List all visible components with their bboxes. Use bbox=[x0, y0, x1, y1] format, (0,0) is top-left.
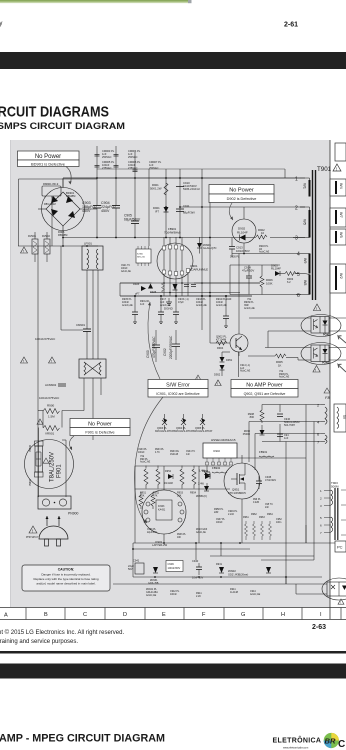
svg-text:and(or) model name described i: and(or) model name described in main lab… bbox=[36, 582, 96, 586]
svg-text:KRC102S-RTK/P: KRC102S-RTK/P bbox=[193, 430, 213, 433]
bus wire main bbox=[120, 295, 252, 297]
right margin winding box 5V bbox=[334, 404, 346, 432]
warning triangle 2 mid bbox=[49, 357, 56, 363]
svg-text:SEC-S5: SEC-S5 bbox=[137, 257, 146, 259]
svg-text:6.2: 6.2 bbox=[287, 280, 291, 284]
resistor R908 bbox=[248, 410, 264, 423]
svg-text:100nF/50V: 100nF/50V bbox=[236, 249, 250, 253]
svg-text:RL104F: RL104F bbox=[237, 231, 248, 235]
filter ACM902 bbox=[39, 359, 106, 400]
caution box bbox=[22, 565, 110, 591]
capacitor C919 bbox=[191, 285, 196, 287]
svg-text:R964: R964 bbox=[267, 513, 273, 516]
diode D925 bbox=[148, 284, 157, 295]
transformer T901 label bbox=[317, 164, 341, 173]
svg-text:IF7: IF7 bbox=[155, 209, 159, 213]
svg-text:PC902: PC902 bbox=[322, 362, 330, 365]
svg-text:100nF/275VAC: 100nF/275VAC bbox=[35, 337, 56, 341]
callout box No Power F901 bbox=[69, 419, 130, 451]
schematic right border bbox=[329, 140, 331, 619]
svg-text:D952: D952 bbox=[165, 470, 172, 473]
svg-text:PC: PC bbox=[337, 545, 343, 550]
diode D901 bbox=[153, 206, 169, 213]
svg-text:AMP - MPEG CIRCUIT DIAGRAM: AMP - MPEG CIRCUIT DIAGRAM bbox=[0, 733, 165, 745]
rails below IC901 bbox=[120, 283, 260, 293]
capacitor C947 bbox=[277, 434, 289, 440]
svg-text:47μF/50V: 47μF/50V bbox=[242, 269, 254, 273]
zener ZD931 bbox=[148, 567, 159, 585]
capacitor C910 bbox=[176, 181, 200, 191]
svg-text:No Power: No Power bbox=[88, 422, 112, 428]
bottom primary rails bbox=[37, 246, 39, 497]
svg-text:KRC102S-RTK/P: KRC102S-RTK/P bbox=[174, 430, 194, 433]
svg-text:!: ! bbox=[217, 382, 218, 386]
svg-text:W2: W2 bbox=[339, 273, 343, 279]
warning triangle above opto1 bbox=[313, 304, 320, 311]
schematic gray background bbox=[10, 140, 330, 607]
PC box bbox=[335, 541, 346, 552]
top label cluster row bbox=[102, 149, 162, 170]
warning triangle mid-left bbox=[21, 357, 28, 363]
svg-text:450V: 450V bbox=[101, 209, 110, 213]
svg-text:D951: D951 bbox=[226, 358, 233, 362]
IC900 side labels bbox=[121, 265, 131, 273]
wires secondary aux bbox=[230, 254, 301, 295]
svg-text:2.2nF: 2.2nF bbox=[228, 513, 235, 516]
svg-text:1: 1 bbox=[295, 177, 298, 183]
svg-text:D905 PL: D905 PL bbox=[230, 256, 240, 259]
svg-text:1N4148: 1N4148 bbox=[164, 482, 173, 485]
svg-text:A: A bbox=[4, 613, 8, 619]
svg-text:47μF: 47μF bbox=[178, 301, 184, 304]
svg-text:250VAC: 250VAC bbox=[128, 155, 138, 159]
wires top primary rails bbox=[19, 178, 98, 180]
secondary winding pins 6/7 bbox=[317, 432, 327, 445]
svg-text:6TF13N80K5: 6TF13N80K5 bbox=[228, 491, 246, 495]
resistor R900 bbox=[43, 404, 60, 419]
diode D954 bbox=[199, 470, 210, 478]
svg-text:GDZ-J43B(26we): GDZ-J43B(26we) bbox=[228, 572, 248, 576]
capacitor C918 bbox=[184, 285, 189, 287]
svg-text:C939: C939 bbox=[168, 562, 175, 566]
svg-text:!: ! bbox=[39, 421, 40, 425]
zener ZD932 bbox=[228, 567, 271, 576]
svg-text:IC901, IC902 are Defective: IC901, IC902 are Defective bbox=[156, 392, 199, 396]
grid labels bbox=[140, 492, 197, 498]
svg-text:AcloC,AE: AcloC,AE bbox=[250, 593, 261, 596]
svg-text:F901 is Defective: F901 is Defective bbox=[85, 431, 114, 435]
svg-text:W5: W5 bbox=[339, 232, 343, 238]
capacitor C913 bbox=[229, 238, 270, 259]
svg-text:GLALLQ7D: GLALLQ7D bbox=[203, 246, 217, 250]
svg-text:0.22R: 0.22R bbox=[253, 502, 259, 504]
bridge rectifier BD901 bbox=[18, 179, 98, 246]
zener ZD901 bbox=[197, 237, 217, 254]
svg-text:ht © 2015 LG Electronics Inc.: ht © 2015 LG Electronics Inc. All right … bbox=[0, 629, 124, 636]
transformer T903 bbox=[320, 481, 346, 540]
svg-text:5V: 5V bbox=[342, 415, 346, 420]
capacitor C902 bbox=[163, 330, 180, 360]
svg-text:1.4W: 1.4W bbox=[199, 470, 205, 473]
svg-text:CAUTION:: CAUTION: bbox=[58, 568, 75, 572]
svg-text:!: ! bbox=[315, 368, 316, 373]
svg-text:C: C bbox=[83, 612, 87, 618]
svg-text:AcloC,AE: AcloC,AE bbox=[216, 304, 227, 307]
left resistor RV902 bbox=[42, 232, 50, 262]
capacitor C911 bbox=[176, 204, 195, 215]
logo eletronicabr bbox=[273, 733, 346, 750]
resistor R906 bbox=[260, 265, 273, 295]
wire between filters bbox=[38, 169, 149, 428]
zener ZD906 bbox=[243, 430, 265, 436]
ferrite bead FB931 bbox=[259, 450, 274, 457]
svg-text:10: 10 bbox=[261, 231, 265, 235]
svg-text:W8: W8 bbox=[303, 280, 307, 285]
svg-text:22μF/50V: 22μF/50V bbox=[147, 532, 157, 534]
warning triangle near DGND bbox=[195, 375, 201, 381]
svg-text:RBV-806M: RBV-806M bbox=[44, 203, 56, 206]
svg-text:!: ! bbox=[23, 249, 24, 253]
svg-text:800: 800 bbox=[250, 415, 255, 419]
svg-text:AcloC,AE: AcloC,AE bbox=[240, 370, 251, 373]
svg-text:AcloC,AE: AcloC,AE bbox=[244, 307, 255, 310]
svg-text:P9900: P9900 bbox=[29, 444, 32, 452]
transistor Q904 bbox=[174, 414, 194, 433]
diode D926 bbox=[173, 284, 178, 290]
T901 pin 2 bbox=[295, 206, 305, 212]
zener ZD951 bbox=[196, 483, 209, 499]
svg-text:100nF: 100nF bbox=[138, 452, 145, 454]
svg-text:www.eletronicabr.com: www.eletronicabr.com bbox=[283, 746, 308, 750]
green progress bar bbox=[0, 0, 188, 3]
svg-text:AcloC,AE: AcloC,AE bbox=[196, 304, 207, 307]
svg-text:275VAC: 275VAC bbox=[128, 166, 138, 170]
svg-text:250VAC: 250VAC bbox=[149, 166, 159, 170]
warning triangle at R900 bbox=[37, 419, 43, 425]
svg-text:R96 PL: R96 PL bbox=[253, 499, 261, 501]
warning triangle below opto2 bbox=[313, 366, 320, 373]
T901 pin 3 bbox=[293, 236, 305, 242]
svg-text:RV901: RV901 bbox=[28, 234, 36, 238]
right margin box top bbox=[335, 143, 346, 161]
svg-text:C940: C940 bbox=[192, 559, 199, 563]
capacitor C939 bbox=[166, 561, 183, 572]
winding box W2 bbox=[330, 264, 346, 293]
svg-text:AcloC,AE: AcloC,AE bbox=[122, 304, 133, 307]
svg-text:T901: T901 bbox=[317, 166, 332, 173]
diode D902 circle bbox=[232, 207, 256, 254]
top cluster cap symbols bbox=[95, 155, 138, 172]
svg-text:100nF/50V: 100nF/50V bbox=[168, 566, 181, 570]
below bus labels bbox=[122, 298, 232, 307]
svg-text:P9901: P9901 bbox=[29, 478, 32, 486]
diode D951 bbox=[220, 352, 233, 362]
svg-text:10nF 50V: 10nF 50V bbox=[192, 576, 204, 580]
svg-text:ZD932: ZD932 bbox=[228, 569, 236, 573]
svg-text:100K: 100K bbox=[266, 281, 273, 285]
svg-text:No Power: No Power bbox=[229, 188, 254, 194]
svg-text:2200pF/250VAC: 2200pF/250VAC bbox=[169, 335, 173, 359]
capacitor C904 bbox=[101, 201, 120, 213]
svg-text:504-763H: 504-763H bbox=[284, 424, 295, 427]
secondary rails bbox=[237, 405, 321, 585]
svg-text:R904: R904 bbox=[217, 346, 224, 350]
svg-text:AcloC,AE: AcloC,AE bbox=[160, 304, 171, 307]
svg-text:training and service purposes.: training and service purposes. bbox=[0, 639, 78, 645]
warning triangle between callouts bbox=[215, 380, 221, 386]
ferrite bead FB932 bbox=[212, 466, 227, 473]
capacitor C945 bbox=[256, 475, 276, 489]
svg-text:4.7K: 4.7K bbox=[155, 452, 160, 454]
labels above bus right bbox=[214, 508, 282, 524]
svg-text:1L4148: 1L4148 bbox=[230, 591, 239, 594]
svg-text:34063A/15: 34063A/15 bbox=[221, 438, 236, 442]
svg-text:22R: 22R bbox=[214, 511, 219, 514]
capacitor C905 bbox=[124, 214, 141, 224]
svg-text:C941: C941 bbox=[133, 559, 140, 563]
wire verticals top bbox=[96, 146, 98, 206]
arrow to opto1 bbox=[338, 336, 346, 343]
fuse clip top bbox=[29, 441, 43, 452]
svg-text:VR901: VR901 bbox=[45, 432, 55, 436]
optocoupler PC901 bbox=[301, 315, 341, 337]
svg-text:T8AL/250V: T8AL/250V bbox=[50, 452, 56, 482]
svg-text:F901: F901 bbox=[57, 464, 63, 478]
secondary winding pins 2/4 bbox=[317, 403, 327, 425]
svg-text:47nF/3kV: 47nF/3kV bbox=[265, 478, 276, 482]
diode D952 grid bbox=[164, 470, 173, 485]
svg-text:ly: ly bbox=[0, 21, 2, 27]
svg-text:B: B bbox=[44, 612, 48, 618]
svg-text:IC900: IC900 bbox=[137, 254, 144, 256]
svg-text:ZD93 GDZ: ZD93 GDZ bbox=[196, 529, 208, 531]
winding box W6 bbox=[330, 229, 346, 245]
svg-text:RV902: RV902 bbox=[42, 234, 50, 238]
svg-text:AcloC,AE: AcloC,AE bbox=[146, 594, 157, 597]
T901 winding W5 bbox=[300, 207, 311, 238]
svg-text:C921 TC: C921 TC bbox=[121, 265, 130, 267]
svg-text:470pF/250VAC: 470pF/250VAC bbox=[152, 336, 156, 358]
svg-text:Q902, Q951 are Defective: Q902, Q951 are Defective bbox=[244, 392, 286, 396]
svg-text:KRC102S-RTK/P: KRC102S-RTK/P bbox=[155, 430, 175, 433]
svg-text:C937 PL: C937 PL bbox=[216, 519, 226, 521]
svg-text:1K: 1K bbox=[278, 363, 282, 367]
svg-text:!: ! bbox=[340, 601, 341, 605]
transistor Q903 bbox=[155, 414, 175, 433]
schematic left border bbox=[9, 140, 11, 607]
resistor R902 bbox=[256, 228, 267, 239]
capacitor CM901 bbox=[35, 323, 91, 341]
small resistor row above bus bbox=[245, 521, 272, 540]
svg-text:CM901: CM901 bbox=[76, 323, 85, 327]
svg-text:100nF/275VAC: 100nF/275VAC bbox=[39, 396, 60, 400]
labels under C913 area bbox=[244, 298, 255, 310]
svg-text:D: D bbox=[123, 612, 127, 618]
svg-text:100n: 100n bbox=[276, 521, 282, 524]
svg-text:CIRCUIT DIAGRAMS: CIRCUIT DIAGRAMS bbox=[0, 104, 109, 121]
svg-text:1nF: 1nF bbox=[140, 303, 145, 306]
svg-text:PC901: PC901 bbox=[323, 334, 331, 337]
svg-text:2-63: 2-63 bbox=[312, 624, 326, 631]
svg-text:D952: D952 bbox=[214, 373, 221, 377]
capacitor C903 bbox=[82, 201, 101, 213]
svg-text:Danger if fuse is incorrectly: Danger if fuse is incorrectly replaced. bbox=[41, 573, 91, 577]
svg-text:D933 RL: D933 RL bbox=[170, 451, 180, 453]
T901 pin 5 bbox=[296, 272, 305, 278]
svg-text:100nF: 100nF bbox=[170, 593, 177, 596]
svg-text:IC902: IC902 bbox=[213, 449, 220, 453]
svg-text:C934 TC: C934 TC bbox=[186, 451, 195, 453]
svg-text:W7: W7 bbox=[339, 212, 343, 218]
diode D924 bbox=[133, 282, 146, 296]
svg-text:ACM902: ACM902 bbox=[45, 383, 57, 387]
svg-text:RBU8M: RBU8M bbox=[66, 194, 76, 198]
bottom tiny label clusters bbox=[146, 588, 261, 598]
svg-text:AcloC,AE: AcloC,AE bbox=[140, 461, 151, 464]
svg-text:7Ω(HW/BHd): 7Ω(HW/BHd) bbox=[164, 230, 180, 234]
svg-text:RM901 8D-9: RM901 8D-9 bbox=[43, 182, 59, 186]
svg-text:C900: C900 bbox=[146, 350, 150, 358]
wires to opto1 bbox=[249, 318, 346, 348]
svg-text:AcloC,AE: AcloC,AE bbox=[259, 251, 270, 254]
capacitor C914 bbox=[242, 265, 254, 278]
callout box No AMP Power bbox=[231, 380, 298, 398]
svg-text:DGND: DGND bbox=[164, 307, 174, 311]
connector PN900 bbox=[38, 496, 78, 516]
svg-text:P9000: P9000 bbox=[243, 433, 251, 436]
svg-text:W1: W1 bbox=[303, 183, 308, 190]
svg-text:FB931: FB931 bbox=[259, 450, 268, 454]
resistor R903 bbox=[285, 272, 296, 285]
winding box W4 bbox=[330, 179, 346, 196]
diode D952a bbox=[214, 352, 239, 377]
svg-text:SMPS CIRCUIT DIAGRAM: SMPS CIRCUIT DIAGRAM bbox=[0, 121, 125, 132]
winding box W7 bbox=[330, 208, 346, 227]
IC901 circle bbox=[157, 237, 208, 296]
IC902 DIP box small bbox=[136, 246, 151, 266]
svg-text:68μF/3kV: 68μF/3kV bbox=[183, 211, 195, 215]
bottom bus rails bbox=[113, 489, 335, 594]
svg-text:R900: R900 bbox=[47, 404, 55, 408]
svg-text:pF7: pF7 bbox=[135, 292, 140, 296]
warning triangle at plug bbox=[26, 526, 39, 539]
svg-text:ELETRÔNICA: ELETRÔNICA bbox=[273, 736, 322, 745]
svg-text:3: 3 bbox=[295, 236, 298, 242]
T901 winding W1 bbox=[300, 178, 311, 197]
capacitor C940 bbox=[192, 559, 204, 580]
wire drops below bus bbox=[135, 254, 239, 344]
svg-text:H: H bbox=[281, 612, 285, 618]
resistor R901 bbox=[150, 183, 168, 195]
svg-text:1N4148: 1N4148 bbox=[170, 454, 179, 456]
warning triangle below opto3 bbox=[338, 599, 344, 605]
IC902 box bbox=[140, 438, 237, 465]
svg-text:FB932: FB932 bbox=[212, 466, 221, 470]
T901 winding W8 bbox=[305, 274, 311, 295]
svg-text:HSSE1: HSSE1 bbox=[211, 438, 221, 442]
svg-text:ZD951(K): ZD951(K) bbox=[196, 495, 207, 498]
ground DGND bbox=[164, 298, 174, 311]
svg-text:No AMP Power: No AMP Power bbox=[246, 383, 283, 389]
line filter LF901 bbox=[82, 242, 103, 271]
svg-text:5: 5 bbox=[297, 272, 300, 278]
resistor R907 bbox=[162, 283, 165, 292]
MOSFET Q951 bbox=[224, 463, 260, 499]
svg-text:RL104F: RL104F bbox=[271, 267, 281, 271]
left resistor RV901 bbox=[28, 232, 38, 262]
FB label bbox=[324, 388, 330, 400]
svg-text:W9: W9 bbox=[303, 258, 307, 263]
bus junction dots bbox=[62, 177, 245, 297]
svg-text:D902 is Defective: D902 is Defective bbox=[227, 197, 257, 201]
warning triangle left bbox=[21, 247, 28, 253]
callout box No Power BD901 bbox=[18, 151, 80, 185]
resistor grid row bbox=[135, 466, 230, 510]
svg-text:!: ! bbox=[32, 528, 33, 533]
svg-text:W5: W5 bbox=[303, 219, 308, 226]
T901 pin 4 bbox=[296, 252, 305, 258]
svg-text:10K: 10K bbox=[140, 495, 145, 498]
svg-text:5305-2J101U: 5305-2J101U bbox=[183, 187, 200, 191]
svg-text:68μF/500V: 68μF/500V bbox=[124, 217, 141, 221]
svg-text:G: G bbox=[241, 612, 245, 618]
grid ruler band bbox=[0, 608, 346, 620]
transformer T901 core bbox=[313, 170, 316, 300]
fuse clip bottom bbox=[29, 472, 43, 486]
svg-text:GDZ-J5B: GDZ-J5B bbox=[148, 582, 159, 585]
svg-text:PN900: PN900 bbox=[68, 512, 78, 516]
svg-text:LAPYER-ZW: LAPYER-ZW bbox=[152, 543, 168, 547]
diode D903 bbox=[271, 264, 281, 277]
svg-text:AcloC,AE: AcloC,AE bbox=[121, 270, 131, 273]
svg-text:2nF: 2nF bbox=[265, 507, 270, 509]
svg-text:!: ! bbox=[23, 359, 24, 363]
svg-text:FB: FB bbox=[325, 395, 330, 400]
diode D931 bbox=[216, 563, 224, 573]
svg-text:LF901: LF901 bbox=[84, 242, 92, 246]
svg-text:R933 PL: R933 PL bbox=[155, 449, 165, 451]
svg-text:!: ! bbox=[51, 359, 52, 363]
transistor Q905 bbox=[193, 414, 213, 433]
svg-text:47K: 47K bbox=[153, 495, 158, 498]
svg-text:C911: C911 bbox=[183, 204, 190, 208]
varistor VR901 bbox=[43, 426, 60, 436]
svg-text:R961: R961 bbox=[243, 516, 249, 519]
arrow to opto2 bbox=[338, 364, 346, 372]
svg-text:275VAC: 275VAC bbox=[102, 166, 112, 170]
svg-text:C902: C902 bbox=[163, 348, 167, 356]
svg-text:1nF: 1nF bbox=[186, 454, 191, 456]
svg-text:R963: R963 bbox=[259, 516, 265, 519]
svg-text:R936 PL: R936 PL bbox=[177, 534, 187, 536]
thin rule above bottom bar bbox=[0, 651, 346, 654]
svg-text:100nF: 100nF bbox=[121, 268, 128, 270]
top black bar bbox=[0, 52, 346, 69]
svg-text:1nF: 1nF bbox=[284, 437, 289, 440]
RM901 thermistor bbox=[42, 182, 61, 198]
capacitor C900 bbox=[146, 330, 160, 362]
svg-text:BD901 is Defective: BD901 is Defective bbox=[31, 161, 66, 166]
svg-text:KA431: KA431 bbox=[158, 509, 166, 512]
svg-text:W4: W4 bbox=[339, 183, 343, 189]
svg-text:500M: 500M bbox=[331, 485, 339, 489]
wires to opto2 right bbox=[302, 348, 346, 361]
T901 winding W9 bbox=[305, 253, 311, 273]
labels W9 W8 bbox=[303, 258, 307, 285]
svg-text:AcloC,AE: AcloC,AE bbox=[196, 531, 206, 534]
svg-text:AcloC,AE: AcloC,AE bbox=[279, 376, 290, 379]
svg-text:D925: D925 bbox=[150, 290, 157, 294]
